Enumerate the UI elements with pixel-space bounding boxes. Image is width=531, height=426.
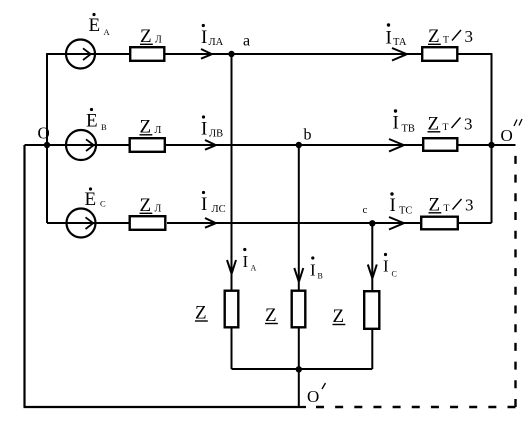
node: neutral junction above O' (296, 366, 302, 372)
svg-text:O: O (38, 124, 50, 143)
svg-text:c: c (363, 204, 368, 216)
current arrow I_LA on row A (201, 49, 212, 59)
svg-text:I: I (393, 113, 399, 134)
svg-text:E: E (85, 189, 97, 210)
impedance box Zt/3-C (421, 217, 458, 230)
svg-text:I: I (390, 195, 396, 216)
svg-text:ТА: ТА (393, 37, 407, 48)
wire row A: left bus to Zl-A box (47, 53, 129, 55)
svg-text:E: E (89, 15, 101, 36)
label I_C (383, 253, 397, 279)
svg-text:B: B (101, 122, 107, 132)
label I_LC (201, 191, 226, 215)
current arrow I_LB on row B (205, 140, 216, 150)
label Zt/3-B (428, 114, 473, 135)
wire row A: node a to Zt-A box (232, 53, 422, 55)
wire row B: stub right of node O'' (492, 144, 516, 146)
svg-text:I: I (243, 252, 249, 271)
label node O' (307, 383, 326, 406)
label Zt/3-A (428, 26, 473, 47)
node a (228, 51, 234, 57)
wire: neutral bar joining the three loads (232, 368, 373, 370)
impedance box Zl-C (130, 216, 166, 230)
impedance box Zl-B (130, 138, 165, 152)
svg-text:C: C (100, 199, 106, 209)
label I_TA (386, 23, 407, 48)
node O'' (488, 142, 494, 148)
label Zt/3-C (429, 195, 474, 216)
wire: bottom neutral return (24, 406, 307, 408)
svg-text:a: a (243, 33, 250, 50)
wire: branch c vertical, node c to load box ZC (371, 223, 373, 290)
label I_A (243, 248, 257, 273)
label EB (86, 108, 107, 132)
wire row B: Zt-B box to node O'' (459, 144, 492, 146)
wire: load box ZB to neutral bar (298, 329, 300, 370)
load impedance box ZA (225, 291, 239, 328)
wire row A: Zt-A box to right bus (459, 53, 492, 55)
wire row C: node c to Zt-C box (372, 222, 420, 224)
wire row C: Zl-C box to node c (167, 222, 372, 224)
label EA (89, 13, 111, 37)
wire: neutral bar to node O' on bottom return (298, 369, 300, 407)
wire: left outer vertical from node O down (23, 145, 25, 407)
label I_LA (201, 24, 224, 48)
current arrow I_LC on row C (205, 218, 216, 228)
wire (dashed): bottom from O' to right corner (314, 406, 516, 408)
svg-text:C: C (392, 270, 397, 279)
label I_B (310, 256, 323, 280)
current arrow I_TC on row C (389, 217, 404, 230)
EMF arrow EA (83, 48, 91, 60)
label load ZC (333, 306, 346, 327)
current arrow I_A (down) on branch a (227, 260, 236, 274)
label I_LB (201, 115, 223, 139)
node c (369, 220, 375, 226)
label EC (85, 187, 107, 210)
current arrow I_TB on row B (389, 139, 404, 152)
node O (44, 142, 50, 148)
svg-text:B: B (318, 272, 323, 281)
impedance box Zt/3-A (422, 47, 457, 61)
label node O'' (501, 119, 523, 145)
svg-text:A: A (104, 27, 111, 37)
svg-text:E: E (86, 111, 98, 132)
svg-text:I: I (386, 28, 392, 49)
svg-text:O: O (307, 387, 319, 406)
wire: left generator bus (46, 53, 48, 223)
EMF source EA (66, 40, 95, 69)
EMF source EB (66, 130, 96, 160)
svg-text:ЛА: ЛА (209, 37, 224, 48)
svg-text:Т: Т (444, 203, 450, 214)
wire: branch b vertical, node b to load box ZB (298, 145, 300, 290)
svg-text:ЛС: ЛС (212, 204, 226, 215)
svg-text:3: 3 (465, 196, 474, 215)
load impedance box ZC (364, 291, 379, 329)
svg-text:Л: Л (155, 204, 162, 215)
svg-text:ТС: ТС (399, 206, 412, 217)
svg-text:A: A (251, 264, 257, 273)
EMF arrow EC (86, 217, 94, 229)
wire row C: left bus to Zl-C box (47, 222, 129, 224)
wire: branch a vertical, node a to load box ZA (231, 54, 233, 290)
svg-text:I: I (310, 261, 316, 280)
svg-text:Т: Т (443, 122, 449, 133)
wire: load box ZC to neutral bar (371, 330, 373, 369)
svg-text:b: b (304, 127, 312, 144)
wire row C: Zt-C box to right bus (459, 222, 492, 224)
wire row A: Zl-A box to node a (166, 53, 232, 55)
wire: right bus (491, 53, 493, 223)
EMF arrow EB (86, 139, 94, 151)
label load ZB (265, 305, 278, 326)
label Zl-A (140, 26, 162, 47)
wire row B: outer left through node O to Zl-B box (25, 144, 129, 146)
impedance box Zl-A (130, 47, 164, 61)
svg-text:3: 3 (465, 27, 474, 46)
wire (dashed): right vertical from O'' stub down (514, 146, 516, 407)
svg-text:ТВ: ТВ (402, 124, 415, 135)
label load ZA (195, 303, 208, 324)
wire row B: node b to Zt-B box (299, 144, 422, 146)
node b (296, 142, 302, 148)
svg-text:ЛВ: ЛВ (209, 129, 223, 140)
svg-text:I: I (201, 119, 207, 140)
current arrow I_C (down) on branch c (368, 265, 377, 279)
svg-text:Т: Т (443, 35, 449, 46)
svg-text:O: O (501, 126, 513, 145)
current arrow I_TA on row A (392, 48, 407, 61)
load impedance box ZB (292, 291, 306, 328)
label Zl-B (140, 117, 162, 138)
label I_TB (393, 109, 415, 134)
label I_TC (390, 192, 413, 216)
EMF source EC (67, 209, 96, 238)
label Zl-C (140, 195, 162, 216)
svg-text:I: I (383, 257, 389, 276)
svg-text:I: I (201, 194, 207, 215)
svg-text:I: I (201, 27, 207, 48)
wire: load box ZA to neutral bar (231, 329, 233, 370)
impedance box Zt/3-B (423, 138, 457, 151)
current arrow I_B (down) on branch b (294, 268, 303, 282)
wire row B: Zl-B box to node b (166, 144, 299, 146)
svg-text:Л: Л (155, 125, 162, 136)
svg-text:3: 3 (464, 115, 473, 134)
svg-text:Л: Л (155, 35, 162, 46)
